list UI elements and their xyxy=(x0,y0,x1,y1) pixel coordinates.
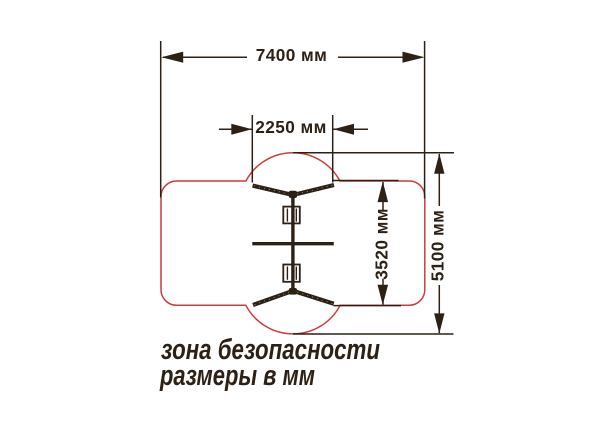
dimension 3520: arrow up xyxy=(378,182,389,203)
dimension 5100: line top stub xyxy=(438,154,440,206)
dimension 7400: extension line left xyxy=(160,41,162,198)
dimension 5100: extension line bottom xyxy=(293,333,454,335)
dimension 3520: line bottom stub xyxy=(382,279,384,305)
dimension 3520: extension line top xyxy=(333,180,399,182)
dimension 7400: extension line right xyxy=(424,41,426,199)
swing frame: top V left leg xyxy=(253,186,293,195)
dimension 2250: tail left xyxy=(219,128,252,130)
swing frame: top V right leg xyxy=(293,185,334,195)
dimension 5100: extension line top xyxy=(293,152,454,154)
swing crossbar xyxy=(252,242,333,245)
dimension 5100: line bottom stub xyxy=(438,285,440,333)
swing seat 1 outer xyxy=(283,207,300,224)
swing seat 2 inner left xyxy=(286,267,288,280)
swing frame: bottom apex joint xyxy=(289,288,297,295)
dimension 7400: line right segment xyxy=(338,56,423,58)
swing seat 1 inner right xyxy=(295,209,297,222)
svg-text:7400 мм: 7400 мм xyxy=(256,45,328,65)
swing frame: bottom V right leg xyxy=(293,291,334,304)
dimension 2250: extension line right xyxy=(332,115,334,183)
dimension 2250: extension line left xyxy=(251,115,253,183)
svg-text:5100 мм: 5100 мм xyxy=(428,210,448,282)
swing seat 2 outer xyxy=(283,265,300,282)
swing frame: central beam xyxy=(291,194,294,291)
swing frame: bottom V left leg xyxy=(253,291,293,305)
dimension 3520: arrow down xyxy=(378,285,389,305)
dimension 3520: extension line bottom xyxy=(334,305,402,307)
dimension 5100: arrow down xyxy=(434,313,444,333)
dimension 7400: line left segment xyxy=(163,56,247,58)
swing frame: top apex joint xyxy=(289,191,297,198)
svg-text:3520 мм: 3520 мм xyxy=(371,208,391,280)
safety zone outline (red) xyxy=(161,153,425,334)
swing frame: top V highlight dashes xyxy=(254,186,291,195)
dimension 2250: arrow pointing left xyxy=(333,124,354,135)
swing frame: bottom V highlight dashes xyxy=(255,291,292,304)
dimension 5100: arrow up xyxy=(434,153,444,173)
dimension 2250: arrow pointing right xyxy=(231,124,252,135)
dimension 3520: line top stub xyxy=(382,182,384,210)
dimension 2250: tail right xyxy=(333,128,368,130)
swing seat 1 inner left xyxy=(286,209,288,222)
svg-text:2250 мм: 2250 мм xyxy=(255,117,327,137)
dimension 7400: arrow right xyxy=(403,52,425,63)
swing seat 2 inner right xyxy=(295,267,297,280)
svg-text:размеры в мм: размеры в мм xyxy=(159,360,315,392)
dimension 7400: arrow left xyxy=(161,52,183,63)
